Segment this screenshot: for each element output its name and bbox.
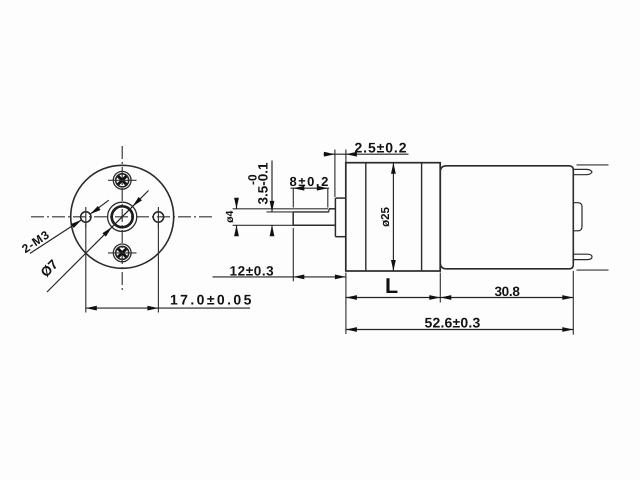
motor terminal top: [574, 169, 592, 174]
leader line 2-M3: [30, 220, 82, 254]
dimension line 12±0.3: [213, 276, 346, 278]
extension line left hole: [85, 224, 87, 313]
label 3.5 -0/-0.1 (rotated): [246, 162, 271, 205]
dimension diameter 4 upper line and arrow: [236, 203, 238, 209]
leader arrow lower-left of bore: [102, 225, 113, 236]
arrow 52.6 left: [346, 327, 357, 332]
shaft top edge full diameter: [329, 208, 336, 210]
right hole centerline tick: [157, 207, 159, 228]
bottom screw cross recess: [118, 249, 126, 257]
bottom screw outer circle: [113, 244, 131, 262]
leader line diameter 7: [47, 191, 149, 293]
top screw inner circle: [116, 174, 129, 187]
arrow 17.0 left: [86, 306, 97, 311]
svg-text:17.0±0.05: 17.0±0.05: [170, 292, 254, 308]
center bearing boss circle: [108, 202, 137, 231]
svg-text:-0: -0: [246, 174, 260, 185]
extension line shaft top (diameter 4): [233, 208, 328, 210]
svg-text:L: L: [385, 274, 398, 298]
arrow 25 top: [391, 163, 396, 174]
boss top edge: [335, 197, 345, 199]
top screw cross recess: [118, 176, 126, 184]
extension line right hole: [157, 224, 159, 313]
leader arrow upper-right of M3 hole: [89, 206, 101, 216]
dimension 8±0.2 extension right: [327, 188, 329, 207]
right M3 mounting hole: [153, 212, 163, 222]
bottom screw centerline tick: [108, 252, 137, 254]
shaft end face: [292, 212, 294, 225]
dimension line 2.5±0.2: [324, 153, 409, 155]
svg-text:12±0.3: 12±0.3: [230, 264, 275, 279]
svg-text:ø4: ø4: [224, 211, 236, 223]
motor body outline: [440, 166, 573, 269]
arrow 12 right: [335, 275, 346, 280]
leader arrow lower-left of M3 hole: [71, 218, 83, 228]
shaft flat step: [328, 209, 330, 212]
arrow 12 left: [293, 275, 304, 280]
boss bottom edge: [335, 236, 345, 238]
vertical centerline: [121, 146, 123, 293]
left hole centerline tick: [85, 207, 87, 228]
dimension 3.5 lower line and arrow: [271, 225, 273, 233]
svg-text:30.8: 30.8: [494, 284, 520, 299]
extension line shaft bottom (diameter 4): [233, 224, 294, 226]
horizontal centerline: [31, 216, 212, 218]
dimension line diameter 25: [392, 163, 394, 271]
extension line motor top right: [577, 164, 609, 166]
arrow 30.8 left at joint: [440, 295, 451, 300]
bottom screw inner circle: [116, 246, 129, 259]
arrow 2.5 left (outside pointing right): [324, 152, 335, 157]
dimension 3.5 upper line and arrow: [271, 161, 273, 212]
gearbox seam line 1: [365, 163, 367, 271]
leader arrow upper-right of bore: [131, 197, 142, 208]
top screw outer circle: [113, 171, 131, 189]
shaft flat edge: [293, 211, 329, 213]
dimension line 8±0.2: [291, 187, 330, 189]
arrow L right at joint: [429, 295, 440, 300]
svg-text:ø25: ø25: [380, 206, 392, 226]
svg-text:2.5±0.2: 2.5±0.2: [355, 140, 408, 156]
shaft bottom edge: [293, 224, 335, 226]
dimension diameter 4 lower line and arrow: [236, 225, 238, 232]
extension line gearbox face below: [345, 273, 347, 335]
boss front face: [334, 198, 336, 237]
dimension 2.5±0.2 extension right (gearbox face): [345, 150, 347, 163]
svg-text:52.6±0.3: 52.6±0.3: [425, 315, 481, 331]
dimension 8±0.2 extension left: [292, 188, 294, 207]
arrow 2.5 right (outside pointing left): [346, 152, 357, 157]
extension line motor bottom right: [577, 269, 609, 271]
shaft bore circle (thick): [112, 206, 133, 227]
arrow 8 left: [293, 186, 304, 191]
arrow 30.8 right: [562, 295, 573, 300]
arrow 25 bottom: [391, 260, 396, 271]
arrow 17.0 right: [147, 306, 158, 311]
dimension line L / 30.8: [346, 297, 573, 299]
gearbox seam line 2: [421, 163, 423, 271]
top screw centerline tick: [108, 179, 137, 181]
arrow 8 right: [317, 186, 328, 191]
dimension 2.5±0.2 extension left (boss face): [334, 150, 336, 198]
arrow 52.6 right: [562, 327, 573, 332]
motor brush cap: [574, 203, 582, 231]
arrow L left: [346, 295, 357, 300]
extension line gearbox/motor joint below: [439, 273, 441, 303]
dimension line 17.0: [86, 307, 250, 309]
extension line shaft flat left (3.5): [267, 211, 294, 213]
extension line motor rear below: [572, 271, 574, 335]
left M3 mounting hole: [81, 212, 91, 222]
gearbox body outline: [346, 163, 440, 271]
extension line shaft tip below: [292, 228, 294, 281]
motor terminal bottom: [574, 254, 592, 259]
svg-text:8±0.2: 8±0.2: [290, 174, 330, 189]
gearbox face outer circle: [71, 165, 174, 268]
dimension line 52.6±0.3: [346, 329, 573, 331]
